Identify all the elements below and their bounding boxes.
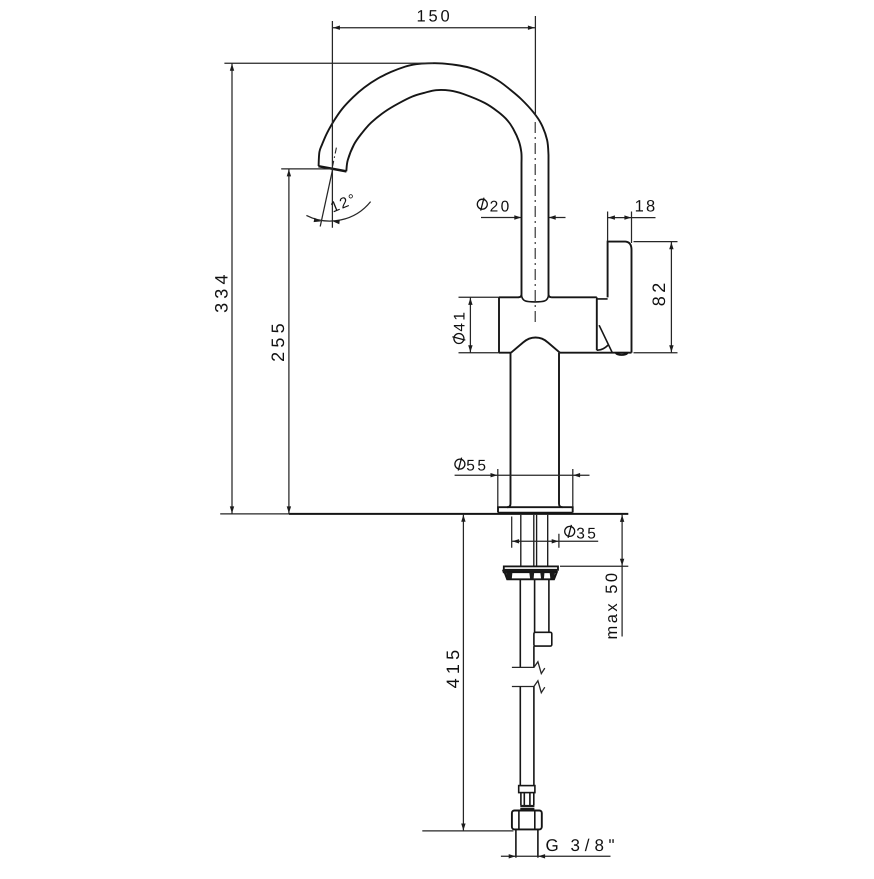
dim phi35 arrows (512, 539, 519, 543)
hose crimp section (521, 793, 534, 806)
dim max50 arrows (620, 515, 624, 522)
shank dome (shank-body intersection) (511, 338, 560, 353)
dim 415 ext (422, 830, 513, 832)
svg-text:334: 334 (212, 270, 232, 313)
dim 12deg arc (306, 202, 370, 221)
supply hose lower section (520, 687, 534, 786)
spout inner edge and riser pipe left edge (346, 90, 521, 297)
dim phi55 text (455, 458, 465, 471)
dim 255 line (288, 169, 290, 514)
supply hose upper section (520, 580, 534, 668)
dim 150 ext left (331, 21, 333, 228)
dim 82 text (649, 279, 669, 306)
dim phi55 arrows (491, 473, 498, 477)
dim 150 ext right (534, 16, 536, 116)
svg-text:20: 20 (490, 199, 512, 216)
svg-text:150: 150 (417, 7, 453, 25)
pipe break lower (512, 681, 545, 693)
riser pipe centerline (534, 122, 536, 322)
dim phi41 ext (459, 297, 500, 352)
dim 255 ext (281, 168, 333, 170)
hex coupling nut (512, 811, 542, 830)
svg-text:G: G (546, 836, 559, 855)
dim phi41 arrows (468, 298, 472, 305)
dim 334 text (212, 270, 232, 313)
dim phi20 line (481, 217, 566, 219)
dim 82 line (670, 242, 672, 353)
svg-text:": " (609, 836, 615, 855)
dim 150 arrows (333, 26, 340, 30)
dim G3/8 arrows (509, 854, 516, 858)
svg-text:8: 8 (595, 836, 604, 855)
dim G3/8 line (501, 855, 611, 857)
svg-text:255: 255 (268, 319, 288, 362)
shank left edge (507, 353, 511, 508)
dim 150 line (332, 27, 535, 29)
pipe break upper (512, 662, 545, 674)
dim 334 ext top (224, 62, 433, 64)
dim phi35 text (565, 525, 575, 538)
dim 12deg reference line (320, 169, 333, 227)
body right cap edge (596, 299, 598, 350)
dim phi41 text (451, 310, 468, 344)
dim 415 text (443, 646, 463, 689)
dim 18 line (608, 217, 656, 219)
hex nut facets (519, 811, 535, 830)
svg-text:3: 3 (571, 836, 580, 855)
dim 12deg text (328, 190, 360, 216)
dim 255 text (268, 319, 288, 362)
dim 415 line (462, 514, 464, 831)
cap bottom fillet (597, 345, 608, 350)
lever diagonal edge (599, 325, 612, 353)
pipe-body saddle dip (522, 295, 549, 302)
threaded shank hidden lines below counter (521, 515, 548, 567)
handle blade outline (608, 242, 632, 353)
G3/8 thread stub (516, 829, 538, 857)
gasket rings (520, 805, 534, 807)
dim 18 arrows (608, 215, 615, 219)
mounting stud (535, 580, 549, 633)
svg-text:55: 55 (466, 457, 488, 474)
svg-text:415: 415 (443, 646, 463, 689)
dim 334 line (231, 63, 233, 513)
body bottom edge (499, 352, 632, 354)
dim phi55 ext (498, 469, 573, 507)
dim phi20 arrows (514, 215, 521, 219)
dim max50 ext (560, 565, 628, 567)
dim max50 text (603, 570, 621, 639)
dim phi35 ext (512, 517, 559, 548)
svg-text:max 50: max 50 (603, 570, 621, 639)
mounting star nut (504, 566, 558, 569)
dim 18 ext right (631, 212, 633, 244)
hose end collar (519, 786, 535, 793)
counter top line extension (220, 513, 289, 515)
spout tip cut edge (318, 166, 346, 171)
svg-text:35: 35 (576, 525, 598, 542)
dim phi35 line (512, 540, 598, 542)
svg-text:82: 82 (649, 279, 669, 306)
svg-text:/: / (585, 836, 590, 855)
dim 12deg arrows (314, 218, 321, 222)
stud end nut (534, 632, 552, 646)
dim phi41 line (469, 297, 471, 352)
spout tip centerline (333, 148, 337, 167)
dim phi55 line (455, 474, 590, 476)
dim 82 ext bottom (634, 352, 678, 354)
dim 18 ext left (607, 212, 609, 242)
counter top line (289, 513, 628, 515)
dim 255 arrows (287, 169, 291, 176)
flange bottom edge (498, 512, 573, 514)
body left edge (498, 297, 500, 352)
spout outer edge and riser pipe right edge (319, 63, 552, 297)
svg-text:18: 18 (635, 197, 658, 215)
dim 415 arrows (461, 515, 465, 522)
dim phi20 text (477, 198, 487, 211)
dim 82 arrows (669, 242, 673, 249)
dim max50 line (621, 514, 623, 636)
shank right edge (559, 353, 563, 508)
dim 334 arrows (230, 64, 234, 71)
body-handle step (597, 297, 608, 299)
flange outline (498, 507, 573, 512)
dim 82 ext top (634, 241, 678, 243)
handle underside dome (616, 353, 628, 355)
svg-text:41: 41 (451, 310, 468, 332)
body top edge (499, 296, 597, 298)
